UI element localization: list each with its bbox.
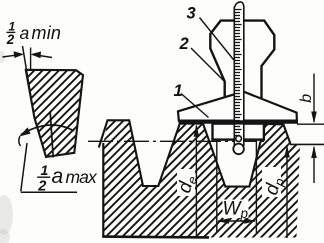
right arrow of 1/2 a min	[31, 52, 53, 59]
b dimension lower line with up arrow	[311, 146, 317, 183]
left arrow of 1/2 a min	[3, 51, 25, 58]
min flank line extended above tooth	[23, 46, 35, 118]
svg-text:min: min	[32, 23, 62, 43]
leader to label 1	[181, 94, 209, 118]
arc arrowhead	[19, 127, 31, 136]
Wp dimension arrows	[217, 218, 256, 224]
vertical reference line (max angle) inside tooth	[50, 112, 53, 158]
leader to label 3	[200, 18, 234, 61]
foot bottom extension line to the right	[297, 123, 324, 125]
scale tick marks	[235, 10, 242, 145]
svg-text:b: b	[298, 94, 315, 103]
svg-text:2: 2	[179, 35, 189, 53]
b dimension upper line with down arrow	[311, 74, 317, 124]
Wp extension line left	[216, 139, 218, 233]
foot of gauge (item 1)	[178, 92, 297, 121]
foot sole thick line	[179, 120, 299, 124]
underline of 1/2 a max	[21, 191, 77, 193]
svg-text:1: 1	[41, 162, 49, 178]
leader to label 2	[191, 48, 225, 82]
label dp (rotated)	[261, 167, 287, 198]
thread profile outline	[99, 120, 291, 186]
left tooth profile (hatched)	[0, 0, 256, 243]
pitch centerline (dash-dot)	[88, 140, 265, 142]
leader line to 1/2 a max	[21, 143, 27, 191]
block left edge	[102, 143, 104, 238]
ball tip small circle	[236, 136, 242, 142]
crest line right of last tooth (dp level)	[290, 143, 324, 145]
svg-text:1: 1	[174, 82, 183, 100]
anvil insert in groove	[213, 124, 264, 140]
measuring rod / scale (item 3)	[234, 2, 244, 140]
ball tip large circle	[233, 144, 244, 155]
body of gauge (item 2)	[210, 21, 274, 101]
svg-text:a: a	[20, 23, 30, 43]
svg-text:2: 2	[6, 32, 15, 47]
label 1/2 a min	[6, 20, 61, 47]
de dimension line with up arrow	[194, 124, 200, 237]
rod lower part through anvil	[234, 124, 244, 146]
label Wp	[223, 199, 249, 222]
scan smudge bottom-left	[0, 51, 13, 243]
vertical reference line (min angle)	[30, 48, 32, 70]
block bottom edge	[102, 235, 209, 238]
svg-text:3: 3	[187, 5, 196, 23]
arc arrow tail curl	[19, 136, 21, 146]
svg-text:2: 2	[37, 179, 46, 195]
Wp extension line right	[255, 139, 257, 233]
label de (rotated)	[174, 169, 200, 196]
label 1/2 a max	[37, 162, 98, 195]
svg-text:max: max	[66, 167, 99, 187]
angle arc (a max)	[21, 125, 74, 134]
dp dimension line with up arrow	[284, 145, 290, 238]
svg-text:a: a	[52, 165, 64, 188]
